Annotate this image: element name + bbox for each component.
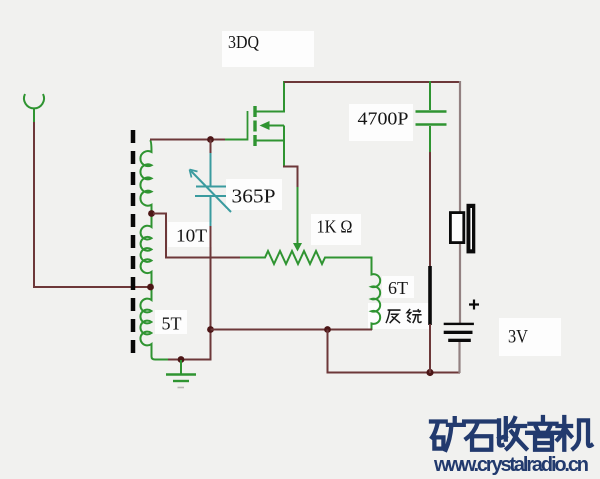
label background boxes <box>222 31 314 67</box>
node: ground junction <box>178 356 185 363</box>
node: antenna tap <box>147 284 154 291</box>
shi <box>464 422 496 450</box>
svg-text:4700P: 4700P <box>358 109 409 129</box>
coil L1 10T upper section <box>140 140 151 212</box>
wire: tap to pot left lead <box>153 214 240 258</box>
wire: coil bottom to ground/corner <box>168 359 212 361</box>
potentiometer wiper arrow <box>293 187 302 252</box>
node: battery bottom junction <box>426 369 433 376</box>
wire: antenna down lead <box>33 122 35 288</box>
wire: below black segment <box>429 324 431 373</box>
battery B1 3V <box>444 300 479 343</box>
speaker SP1 <box>450 204 475 254</box>
antenna <box>24 94 44 123</box>
ji <box>558 417 592 450</box>
resistor R1 1K <box>240 251 372 264</box>
node: coil tap to potentiometer <box>148 210 155 217</box>
svg-text:3DQ: 3DQ <box>228 32 259 52</box>
transformer core (dashed) <box>131 130 136 358</box>
yin <box>527 417 559 450</box>
ground <box>166 360 196 388</box>
wire: antenna horizontal to coil tap <box>33 286 151 288</box>
watermark kuang-shi-shou-yin-ji <box>431 417 591 450</box>
label fan-rao (reverse wound) <box>386 309 422 323</box>
wire: top wire coil to gate <box>150 139 226 141</box>
wire: source to pot wiper <box>283 167 298 189</box>
wire: cap lead down <box>429 152 431 267</box>
svg-text:10T: 10T <box>176 226 207 246</box>
svg-text:5T: 5T <box>162 314 182 334</box>
rao <box>407 309 422 323</box>
svg-text:365P: 365P <box>232 186 276 208</box>
transistor Q1 (MOSFET) <box>248 81 285 168</box>
wire: mid horizontal <box>211 329 373 331</box>
inductor L2 6T <box>372 257 381 331</box>
earphone element (thick black segment) <box>428 266 432 325</box>
variable capacitor C1 365P <box>190 153 232 226</box>
wire: down from mid junction <box>327 330 329 374</box>
capacitor C2 4700P <box>416 81 447 153</box>
wire: bottom horizontal <box>327 372 461 374</box>
svg-text:1K Ω: 1K Ω <box>317 217 353 237</box>
kuang <box>431 418 464 450</box>
coil L1 middle section <box>141 215 152 285</box>
node: junction on vertical at mid wire <box>207 326 214 333</box>
svg-text:6T: 6T <box>388 278 408 298</box>
node: tank top junction <box>207 136 214 143</box>
fan <box>386 310 401 323</box>
svg-text:www.crystalradio.cn: www.crystalradio.cn <box>433 454 589 476</box>
wire: top drain wire <box>284 81 460 83</box>
wire: main vertical (365P leads) <box>210 140 212 155</box>
shou <box>499 418 526 449</box>
coil L1 5T lower section <box>140 289 170 360</box>
node: mid-wire junction <box>324 326 331 333</box>
svg-text:3V: 3V <box>508 328 529 348</box>
wire: right vertical branch <box>459 81 461 324</box>
